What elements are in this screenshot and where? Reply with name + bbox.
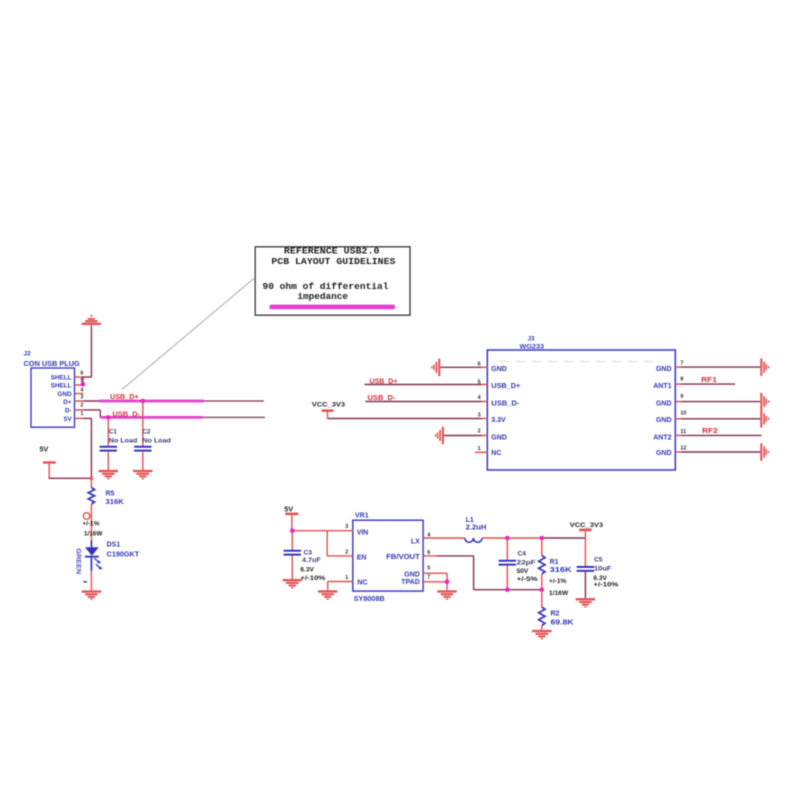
svg-text:69.8K: 69.8K (551, 620, 574, 627)
LED DS1 (90, 540, 92, 547)
svg-text:RF2: RF2 (702, 428, 718, 435)
svg-text:10: 10 (680, 411, 686, 417)
svg-text:No Load: No Load (109, 437, 138, 444)
svg-text:+/-1%: +/-1% (83, 521, 100, 528)
wire pin10 to ground (682, 418, 761, 420)
wire FB/VOUT (423, 555, 437, 557)
resistor R5 (90, 478, 92, 488)
svg-text:2: 2 (81, 402, 84, 408)
svg-text:8: 8 (680, 377, 683, 383)
svg-text:5V: 5V (284, 505, 293, 514)
svg-text:4: 4 (478, 395, 481, 401)
svg-text:7: 7 (680, 361, 683, 367)
resistor R1 (541, 538, 543, 555)
wire pin5 USB_D+ (365, 384, 482, 386)
wire pin12 to ground (682, 451, 761, 453)
svg-text:4: 4 (81, 388, 84, 394)
ground under C2 (133, 470, 152, 479)
wire EN tie to VIN (326, 531, 328, 556)
ground under C5 (576, 598, 595, 607)
svg-text:C5: C5 (594, 557, 603, 564)
svg-text:D+: D+ (63, 399, 72, 406)
svg-text:VIN: VIN (357, 529, 369, 536)
svg-text:C2: C2 (142, 429, 151, 436)
svg-text:1/16W: 1/16W (549, 590, 569, 597)
leader line (122, 278, 255, 390)
wire VIN (292, 530, 353, 532)
svg-text:GND: GND (404, 571, 420, 578)
svg-text:SY8008B: SY8008B (354, 596, 385, 603)
wire D- (83, 409, 100, 411)
wire 5V to R5 node (49, 477, 92, 479)
svg-text:316K: 316K (106, 499, 124, 506)
svg-text:DS1: DS1 (107, 541, 121, 548)
J2 pin stubs (75, 377, 84, 418)
junction C4 top (505, 536, 510, 541)
svg-text:TPAD: TPAD (401, 579, 420, 586)
wire pin11 RF2 (682, 434, 762, 436)
wire shell to ground riser (83, 376, 92, 378)
wire pin8 RF1 (682, 383, 736, 385)
svg-text:+/-10%: +/-10% (593, 582, 618, 589)
ground under TPAD (437, 590, 456, 599)
LED arrows (94, 558, 99, 562)
junction R1 top (540, 536, 545, 541)
faint smear artifact (500, 361, 655, 363)
svg-text:+/-5%: +/-5% (517, 576, 538, 583)
svg-text:+/-1%: +/-1% (549, 578, 567, 585)
svg-text:USB_D+: USB_D+ (491, 383, 520, 390)
svg-text:VR1: VR1 (355, 512, 369, 519)
svg-text:22pF: 22pF (517, 560, 536, 567)
svg-text:1: 1 (478, 446, 481, 452)
capacitor C2 (142, 401, 144, 446)
magenta highlight bar (269, 305, 395, 310)
svg-text:NC: NC (357, 580, 367, 587)
5V power bar symbol (43, 461, 56, 463)
svg-text:USB_D-: USB_D- (368, 395, 397, 402)
red loop mark (83, 513, 90, 520)
svg-text:11: 11 (680, 429, 686, 435)
wire pin3 to VCC_3V3 (328, 418, 482, 420)
capacitor C4 (506, 538, 508, 560)
ground under C1 (99, 470, 118, 479)
svg-text:VCC_3V3: VCC_3V3 (312, 401, 345, 408)
wire after trace D- (203, 416, 266, 418)
svg-text:R5: R5 (106, 490, 115, 497)
junction C2 (141, 399, 146, 404)
connector J2 body (31, 368, 75, 427)
wire LX to L1 (423, 537, 465, 539)
svg-text:USB_D+: USB_D+ (370, 378, 398, 385)
svg-text:GREEN: GREEN (75, 548, 82, 575)
svg-text:GND: GND (656, 450, 672, 457)
svg-text:C1: C1 (109, 429, 118, 436)
svg-text:4.7uF: 4.7uF (302, 557, 321, 564)
USB_D+ trace (thick) (99, 400, 204, 403)
svg-text:316K: 316K (550, 567, 572, 574)
ground under R2 (532, 630, 551, 639)
svg-text:12: 12 (680, 446, 686, 452)
svg-text:5: 5 (427, 566, 430, 572)
svg-text:R2: R2 (551, 611, 560, 618)
svg-text:NC: NC (491, 450, 501, 457)
svg-text:USB_D-: USB_D- (113, 412, 141, 419)
junction VIN (290, 528, 295, 533)
svg-text:GND: GND (656, 366, 672, 373)
LED cathode wire to ground (90, 571, 92, 591)
svg-text:3: 3 (345, 524, 348, 530)
svg-text:GND: GND (491, 434, 507, 441)
ground (inverted, above J2) (82, 315, 101, 325)
svg-text:GND: GND (57, 391, 72, 398)
svg-text:50V: 50V (517, 568, 529, 575)
svg-text:ANT1: ANT1 (653, 383, 671, 390)
ground under NC (318, 590, 337, 599)
svg-text:SHELL: SHELL (51, 382, 72, 389)
J3 pin stubs left (475, 367, 682, 452)
svg-text:VCC_3V3: VCC_3V3 (570, 522, 603, 529)
junction TPAD (445, 580, 450, 585)
junction C4 bottom (505, 587, 510, 592)
wire after trace D+ (204, 400, 264, 402)
inductor L1 (465, 538, 482, 542)
svg-text:3: 3 (478, 413, 481, 419)
wire 5V pin down (83, 417, 91, 419)
svg-text:ANT2: ANT2 (653, 434, 671, 441)
svg-text:USB_D+: USB_D+ (110, 394, 139, 401)
svg-text:No Load: No Load (142, 437, 171, 444)
junction C1 (106, 415, 111, 420)
ground under LED (82, 590, 101, 599)
svg-text:9: 9 (680, 394, 683, 400)
svg-text:7: 7 (427, 575, 430, 581)
ground left of pin6 (431, 359, 440, 377)
svg-text:GND: GND (491, 366, 507, 373)
svg-text:LX: LX (411, 538, 420, 545)
svg-text:1: 1 (81, 411, 84, 417)
svg-text:D-: D- (65, 408, 72, 415)
wire pin9 to ground (682, 401, 761, 403)
wire shell link (82, 377, 84, 385)
capacitor C5 (584, 538, 586, 566)
svg-text:1/16W: 1/16W (84, 530, 103, 537)
svg-text:FB/VOUT: FB/VOUT (386, 554, 420, 561)
wire pin2 to ground (444, 435, 482, 437)
ground left of pin2 (435, 427, 444, 445)
svg-text:J2: J2 (24, 350, 32, 357)
svg-text:6: 6 (81, 371, 84, 377)
wire pin7 to ground (682, 366, 761, 368)
svg-text:6: 6 (427, 550, 430, 556)
VCC_3V3 power symbol (J3) (327, 412, 329, 419)
svg-text:R1: R1 (550, 559, 559, 566)
capacitor C1 (107, 417, 109, 445)
svg-text:L1: L1 (466, 517, 474, 524)
svg-text:1: 1 (345, 575, 348, 581)
junction R1 bottom (540, 587, 545, 592)
svg-text:2: 2 (345, 549, 348, 555)
svg-text:CON USB PLUG: CON USB PLUG (24, 361, 81, 368)
svg-text:impedance: impedance (297, 291, 348, 302)
svg-text:+/-10%: +/-10% (300, 575, 325, 582)
svg-text:6.3V: 6.3V (300, 567, 314, 574)
regulator VR1 body (353, 520, 423, 591)
svg-text:2.2uH: 2.2uH (466, 525, 487, 532)
svg-text:3.3V: 3.3V (491, 417, 506, 424)
capacitor C3 (291, 531, 293, 550)
svg-text:C190GKT: C190GKT (107, 552, 140, 559)
wire D+ (83, 400, 100, 402)
svg-text:EN: EN (357, 555, 367, 562)
wire NC to ground (328, 581, 353, 583)
chip J3 body (487, 350, 675, 470)
USB_D- trace (thick) (100, 416, 202, 419)
svg-text:PCB LAYOUT GUIDELINES: PCB LAYOUT GUIDELINES (271, 256, 395, 267)
svg-text:5V: 5V (64, 416, 73, 423)
ground under C3 (283, 579, 302, 588)
svg-text:SHELL: SHELL (51, 374, 72, 381)
resistor R2 (541, 590, 543, 607)
wire pin4 USB_D- (366, 401, 482, 403)
svg-text:GND: GND (656, 401, 672, 408)
wire GND/TPAD (423, 572, 447, 574)
svg-text:GND: GND (656, 417, 672, 424)
svg-text:C4: C4 (518, 551, 527, 558)
svg-text:RF1: RF1 (701, 377, 717, 384)
wire L1 to node (482, 537, 543, 539)
svg-text:J3: J3 (528, 336, 535, 343)
svg-text:5V: 5V (40, 445, 49, 454)
svg-text:USB_D-: USB_D- (491, 401, 520, 408)
junction shell (81, 382, 86, 387)
svg-text:C3: C3 (304, 550, 313, 557)
REFERENCE NOTE BOX (255, 247, 410, 315)
wire pin6 to ground (440, 366, 481, 368)
svg-text:10uF: 10uF (594, 566, 612, 573)
svg-text:3: 3 (81, 395, 84, 401)
svg-text:2: 2 (478, 429, 481, 435)
